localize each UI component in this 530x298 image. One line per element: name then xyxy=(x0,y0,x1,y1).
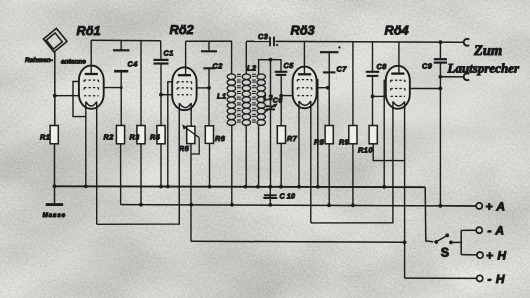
svg-text:Rö3: Rö3 xyxy=(291,23,315,38)
svg-text:R1: R1 xyxy=(40,132,50,141)
svg-text:+ H: + H xyxy=(486,248,507,262)
svg-text:R7: R7 xyxy=(287,134,298,143)
svg-text:antenne: antenne xyxy=(61,58,86,65)
svg-text:C6: C6 xyxy=(273,97,283,104)
svg-text:R4: R4 xyxy=(150,132,160,141)
svg-text:R8: R8 xyxy=(314,137,325,146)
svg-text:- A: - A xyxy=(488,224,505,238)
svg-text:C5: C5 xyxy=(284,61,295,70)
svg-text:+ A: + A xyxy=(486,200,506,214)
svg-text:Rö2: Rö2 xyxy=(170,22,194,37)
svg-text:S: S xyxy=(441,245,449,259)
svg-text:Rö4: Rö4 xyxy=(385,23,409,38)
svg-text:Masse: Masse xyxy=(43,212,66,219)
svg-text:R3: R3 xyxy=(130,132,140,141)
svg-text:R9: R9 xyxy=(339,137,350,146)
svg-text:L2: L2 xyxy=(247,63,257,72)
svg-text:R5: R5 xyxy=(179,144,190,153)
svg-text:C8: C8 xyxy=(377,62,388,71)
svg-text:L1: L1 xyxy=(217,92,227,101)
svg-text:C1: C1 xyxy=(164,49,174,58)
svg-text:C 10: C 10 xyxy=(280,192,295,201)
svg-text:- H: - H xyxy=(488,272,506,286)
svg-text:R10: R10 xyxy=(358,145,373,154)
svg-text:Zum: Zum xyxy=(473,43,502,59)
svg-text:R2: R2 xyxy=(104,132,114,141)
svg-text:Rahmen-: Rahmen- xyxy=(25,57,53,64)
svg-text:Rö1: Rö1 xyxy=(77,23,101,38)
svg-text:L3: L3 xyxy=(264,93,274,102)
svg-text:Lautsprecher: Lautsprecher xyxy=(447,61,520,76)
svg-text:C7: C7 xyxy=(337,65,348,74)
svg-text:C4: C4 xyxy=(128,60,138,69)
svg-text:C2: C2 xyxy=(213,61,223,70)
svg-text:C9: C9 xyxy=(422,62,433,71)
svg-text:R6: R6 xyxy=(215,134,226,143)
svg-text:C3: C3 xyxy=(258,32,268,41)
